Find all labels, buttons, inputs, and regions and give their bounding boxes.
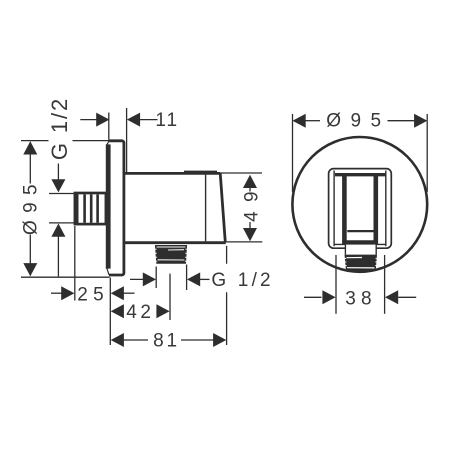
- body vertical contour line: [205, 175, 207, 242]
- outlet thread serrations: [154, 249, 187, 261]
- dim 38 right extension line: [384, 255, 386, 314]
- dim 49 line lower segment: [249, 222, 251, 229]
- dim 25 left arrow: [61, 286, 74, 300]
- wall plate heavy front edge: [107, 141, 109, 275]
- dim O95 left bottom extension line: [21, 276, 110, 278]
- front outlet thread serrations: [344, 258, 378, 265]
- dim 81 right arrow tail: [181, 339, 214, 341]
- wall plate (side view escutcheon): [109, 141, 124, 275]
- body bottom edge: [125, 241, 226, 244]
- dim 38 left arrow: [322, 290, 335, 304]
- dim O95 left down arrow: [23, 263, 37, 276]
- dim 38 right arrow tail: [398, 296, 416, 298]
- bracket window bottom line: [347, 230, 373, 232]
- outlet axis extension line (dim 42 right): [169, 274, 171, 320]
- hose collar right edge: [375, 245, 377, 255]
- dim 49 up arrow: [243, 175, 257, 188]
- front outlet thread (black block): [345, 255, 378, 271]
- dim O95 left top extension line (left part): [21, 140, 49, 142]
- holder bracket outer rounded square: [329, 169, 392, 249]
- dim G1/2 bottom right arrow tail: [200, 278, 210, 280]
- svg-text:2 5: 2 5: [77, 284, 103, 305]
- dim O95 right right arrow: [414, 114, 427, 128]
- body right extension line upper segment (dim 81): [226, 246, 228, 264]
- dim G1/2 bottom left arrow tail: [130, 278, 147, 280]
- inlet thread top extension line: [49, 193, 75, 195]
- dim 38 left extension line: [335, 255, 337, 314]
- inlet thread G1/2 (hatched block): [75, 193, 106, 224]
- dim 38 right arrow: [385, 290, 398, 304]
- outlet thread (black block): [155, 245, 187, 264]
- dim 81 left arrow tail: [124, 339, 149, 341]
- bracket thick bottom bar: [345, 240, 376, 244]
- dim 11 right extension line: [126, 108, 128, 173]
- dim O95 right right extension line: [426, 114, 428, 192]
- dim G1/2 bottom left extension line: [155, 267, 157, 289]
- plate face extension line (dims 25/42/81): [109, 278, 111, 346]
- dim O95 left line upper segment: [29, 142, 31, 184]
- dim 38 left arrow tail: [304, 296, 322, 298]
- dim O95 right left arrow tail: [305, 120, 320, 122]
- dim 81 right arrow: [213, 333, 226, 347]
- dim O95 right left extension line: [292, 114, 294, 192]
- dim G1/2 top-left up arrow: [51, 224, 65, 237]
- bracket inner offset right line: [385, 171, 387, 247]
- svg-text:Ø 9 5: Ø 9 5: [21, 183, 42, 234]
- dim 11 left arrow: [96, 113, 109, 127]
- dim 11 right arrow: [127, 113, 140, 127]
- dim G1/2 top-left down arrow: [51, 179, 65, 192]
- outlet thread relief stripes: [157, 247, 186, 260]
- dim 42 right arrow: [156, 304, 169, 318]
- dim G1/2 top-left lower tail line: [57, 237, 59, 277]
- bracket thick top bar: [335, 173, 386, 176]
- inlet thread hatch lines: [77, 194, 98, 224]
- dim O95 left top extension line (right part): [73, 140, 110, 142]
- hose collar white box: [345, 245, 376, 255]
- dim G1/2 bottom right extension line: [186, 265, 188, 291]
- bracket thick left bar: [342, 176, 347, 245]
- bracket thick right bar: [373, 176, 378, 245]
- svg-text:3 8: 3 8: [345, 289, 371, 310]
- dim O95 right left arrow: [293, 114, 306, 128]
- dim 25 left arrow tail: [51, 292, 62, 294]
- body right slanted edge: [220, 173, 225, 242]
- svg-text:G 1/2: G 1/2: [47, 97, 72, 160]
- body top edge: [125, 172, 220, 175]
- dim O95 right right arrow tail: [388, 120, 415, 122]
- body top lip: [184, 171, 217, 173]
- dim G1/2 bottom left arrow: [143, 272, 156, 286]
- front view circle O95 escutcheon: [292, 137, 427, 272]
- dim 25 right arrow tail: [124, 292, 135, 294]
- bracket inner bottom line: [334, 243, 386, 245]
- svg-text:8 1: 8 1: [153, 330, 176, 351]
- dim 25 left extension line: [74, 226, 76, 301]
- dim 11 left extension line: [108, 113, 110, 140]
- dim 25 right arrow: [111, 286, 124, 300]
- dim 11 right arrow tail: [140, 119, 158, 121]
- svg-text:4 9: 4 9: [242, 189, 263, 221]
- dim 81 left arrow: [111, 333, 124, 347]
- svg-text:11: 11: [155, 110, 179, 131]
- hose collar left edge: [344, 245, 346, 255]
- dim 11 left arrow tail: [80, 119, 97, 121]
- dim 49 down arrow: [243, 228, 257, 241]
- svg-text:Ø 9 5: Ø 9 5: [326, 110, 383, 131]
- dim G1/2 bottom right arrow: [187, 272, 200, 286]
- dim 49 bottom extension line: [226, 241, 262, 243]
- dim O95 left up arrow: [23, 141, 37, 154]
- svg-text:4 2: 4 2: [126, 302, 150, 323]
- dim 49 line upper segment: [249, 188, 251, 192]
- dim G1/2 top-left leader line: [57, 164, 59, 182]
- body right extension line lower segment (dim 81): [226, 292, 228, 345]
- dim 49 top extension line: [220, 172, 263, 174]
- dim O95 left line lower segment: [29, 235, 31, 276]
- bracket inner offset left line: [333, 171, 335, 247]
- dim 42 left arrow: [111, 304, 124, 318]
- inlet thread bottom extension line: [49, 222, 75, 224]
- front outlet thread relief stripes: [347, 258, 375, 268]
- svg-text:G 1/2: G 1/2: [211, 270, 273, 291]
